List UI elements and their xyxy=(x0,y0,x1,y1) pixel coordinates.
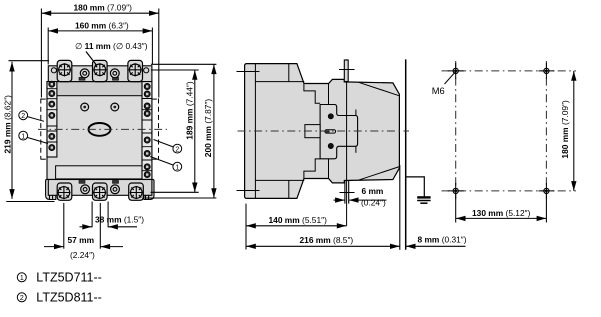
svg-text:(0.24″): (0.24″) xyxy=(361,198,386,208)
mounting plate front line xyxy=(399,165,401,250)
dimension 8mm plate xyxy=(406,245,466,247)
plate screw lower xyxy=(328,143,333,148)
bottom terminal block 3 xyxy=(129,183,144,200)
big screw B3 xyxy=(130,186,143,199)
svg-text:38 mm (1.5″): 38 mm (1.5″) xyxy=(95,215,144,225)
left foot notch xyxy=(50,190,53,200)
svg-text:130 mm (5.12″): 130 mm (5.12″) xyxy=(472,208,531,218)
dimension 160mm top xyxy=(48,28,152,65)
ground symbol xyxy=(406,177,431,203)
right screw column xyxy=(142,82,152,181)
dimension 216mm xyxy=(246,245,400,247)
strip end hole right xyxy=(144,68,149,73)
dimension 130mm xyxy=(456,196,547,223)
top terminal strip xyxy=(48,66,152,82)
svg-text:6 mm: 6 mm xyxy=(362,186,384,196)
svg-text:180 mm (7.09″): 180 mm (7.09″) xyxy=(74,3,133,13)
svg-text:189 mm (7.44″): 189 mm (7.44″) xyxy=(184,81,194,140)
dimension 38mm bottom xyxy=(80,202,138,228)
svg-text:8 mm (0.31″): 8 mm (0.31″) xyxy=(418,234,467,244)
svg-text:2: 2 xyxy=(21,113,25,120)
right mounting foot xyxy=(144,179,154,199)
plate screw upper xyxy=(328,114,333,119)
svg-text:2: 2 xyxy=(20,295,24,302)
svg-text:1: 1 xyxy=(175,164,179,171)
svg-text:1: 1 xyxy=(21,133,25,140)
center slot xyxy=(325,130,336,133)
left screw column xyxy=(47,82,57,157)
centerline front view xyxy=(38,128,167,130)
svg-text:216 mm (8.5″): 216 mm (8.5″) xyxy=(300,235,354,245)
big screw T3 xyxy=(129,63,142,76)
stud top xyxy=(344,60,348,82)
svg-text:219 mm (8.62″): 219 mm (8.62″) xyxy=(3,95,13,154)
dashed accessory outline right xyxy=(152,99,159,160)
center oval xyxy=(89,123,111,136)
armature plate xyxy=(320,105,358,159)
circled 2 right xyxy=(154,140,182,154)
dimension 57mm bottom xyxy=(44,203,123,249)
legend circled 2 xyxy=(17,293,26,302)
bottom terminal block 2 xyxy=(93,183,108,200)
bottom terminal strip xyxy=(48,180,152,196)
body washer B xyxy=(111,103,119,111)
stud bottom crosshair xyxy=(340,192,355,194)
big screw T1 xyxy=(58,63,71,76)
washer screw bottom B xyxy=(111,181,120,194)
big screw B2 xyxy=(93,186,106,199)
contactor front view body xyxy=(47,82,152,181)
right column screws xyxy=(144,83,150,177)
washer screw bottom A xyxy=(79,181,90,194)
dimension 6mm xyxy=(334,199,387,201)
big screw B1 xyxy=(57,186,70,199)
dimension 219mm left xyxy=(6,61,54,202)
front view upper band xyxy=(47,82,152,96)
centerline side view xyxy=(238,130,410,132)
side view internal lines xyxy=(237,64,400,199)
dimension 140mm xyxy=(246,204,347,250)
dimension 200mm right xyxy=(146,64,217,198)
left column screws xyxy=(49,81,55,151)
mounting hole crosshairs xyxy=(448,63,555,199)
armature left tab xyxy=(305,125,320,138)
washer screw top B xyxy=(110,69,119,80)
dimension 189mm right xyxy=(151,70,199,192)
mounting stud axis line xyxy=(346,59,348,226)
strip end hole left xyxy=(51,68,56,73)
bottom terminal block 1 xyxy=(57,183,72,200)
legend circled 1 xyxy=(17,273,26,282)
svg-text:57 mm: 57 mm xyxy=(68,235,95,245)
stud top crosshair xyxy=(339,69,355,71)
mounting hole top left xyxy=(453,68,458,73)
big screw T2 xyxy=(93,63,106,76)
left mounting foot xyxy=(46,179,56,199)
stud bottom lines xyxy=(345,181,349,204)
leader M6 xyxy=(445,72,456,84)
svg-text:200 mm (7.87″): 200 mm (7.87″) xyxy=(203,99,213,158)
dimension 180mm vertical xyxy=(573,71,575,191)
svg-text:160 mm (6.3″): 160 mm (6.3″) xyxy=(75,20,129,30)
svg-text:180 mm (7.09″): 180 mm (7.09″) xyxy=(560,100,570,159)
dashed accessory outline left xyxy=(41,99,47,160)
mounting hole top right xyxy=(544,68,549,73)
mounting wall line xyxy=(405,59,407,249)
svg-text:1: 1 xyxy=(20,275,24,282)
front view lower band xyxy=(56,166,145,179)
body washer A xyxy=(81,103,89,111)
svg-text:(2.24″): (2.24″) xyxy=(70,250,95,260)
top terminal block 3 xyxy=(128,60,143,81)
top terminal block 1 xyxy=(57,60,72,81)
circled 1 left xyxy=(19,131,48,143)
circled 2 left xyxy=(19,111,44,121)
mounting hole bottom left xyxy=(453,188,458,193)
svg-text:140 mm (5.51″): 140 mm (5.51″) xyxy=(269,215,328,225)
side view silhouette xyxy=(245,64,400,199)
washer screw top A xyxy=(79,69,89,80)
svg-text:∅ 11 mm (∅ 0.43″): ∅ 11 mm (∅ 0.43″) xyxy=(75,41,148,51)
svg-text:LTZ5D711--: LTZ5D711-- xyxy=(36,270,102,284)
leader line diameter 11mm xyxy=(86,52,97,66)
dimension 180mm top xyxy=(41,9,158,98)
drilling pattern centerlines xyxy=(442,61,577,196)
svg-text:M6: M6 xyxy=(432,86,445,96)
mounting hole bottom right xyxy=(544,188,549,193)
svg-text:2: 2 xyxy=(175,146,179,153)
top terminal block 2 xyxy=(93,60,108,81)
right foot notch xyxy=(146,190,149,200)
svg-text:LTZ5D811--: LTZ5D811-- xyxy=(36,290,102,304)
circled 1 right xyxy=(150,157,182,172)
